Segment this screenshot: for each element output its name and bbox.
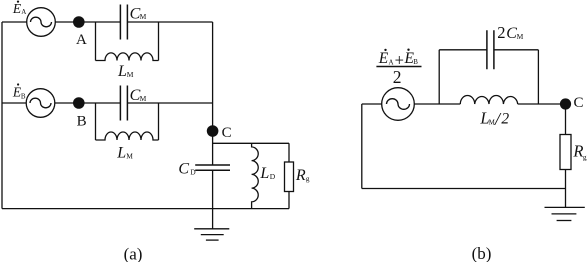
label L_M row1	[117, 63, 134, 80]
svg-text:R: R	[572, 142, 583, 161]
svg-text:g: g	[306, 174, 310, 183]
wire CM row1 to bus	[127, 21, 212, 23]
wire source EA left	[2, 21, 27, 23]
label E_B	[12, 83, 26, 100]
svg-text:A: A	[76, 32, 87, 48]
wire source b to inductor	[414, 103, 460, 105]
svg-text:C: C	[178, 161, 189, 178]
svg-text:A: A	[21, 8, 26, 16]
wire bus lower	[212, 170, 214, 208]
voltage source E_B	[26, 89, 55, 118]
svg-text:C: C	[574, 95, 584, 111]
resistor R_g (b)	[560, 135, 571, 189]
svg-text:(b): (b)	[472, 244, 492, 262]
wire left rail (a)	[1, 22, 3, 209]
wire riser left (b)	[438, 50, 440, 104]
wire source b left	[362, 103, 382, 105]
wire source EA to CM	[55, 21, 120, 23]
wire row2 right junction	[158, 103, 160, 140]
label C_M row2	[130, 87, 147, 104]
wire row1 right junction	[158, 22, 160, 61]
node B	[73, 97, 85, 109]
svg-text:L: L	[116, 145, 126, 162]
svg-text:2: 2	[497, 23, 505, 42]
wire node C to Rg (b)	[565, 104, 567, 135]
svg-text:M: M	[140, 94, 147, 103]
svg-text:A: A	[389, 58, 394, 66]
label L_D	[259, 165, 275, 182]
svg-text:g: g	[583, 152, 587, 161]
label node C (b)	[574, 95, 584, 111]
svg-text:M: M	[140, 12, 147, 21]
svg-text:R: R	[295, 167, 306, 184]
svg-text:B: B	[413, 58, 418, 66]
node C (b)	[560, 98, 571, 109]
label 2C_M	[497, 23, 523, 42]
capacitor C_M row2 plates	[120, 86, 127, 121]
wire row2 left junction	[95, 103, 97, 140]
capacitor 2C_M plates	[487, 30, 494, 69]
ground (a)	[194, 209, 229, 241]
label fraction (EA+EB)/2	[376, 49, 421, 87]
svg-text:D: D	[270, 172, 276, 181]
svg-text:E: E	[378, 50, 389, 67]
wire bottom (a)	[2, 208, 289, 210]
svg-text:(a): (a)	[124, 245, 143, 262]
label L_M row2	[116, 145, 133, 162]
svg-text:C: C	[222, 125, 232, 141]
wire bottom (b)	[362, 188, 566, 190]
label L_M/2	[479, 108, 509, 128]
svg-text:M: M	[127, 70, 134, 79]
resistor R_g (a)	[285, 143, 294, 208]
svg-text:B: B	[21, 93, 26, 101]
capacitor C_D plates	[195, 165, 230, 170]
wire branch C to RL	[213, 142, 289, 144]
capacitor C_M row1 plates	[120, 5, 127, 40]
label C_D	[178, 161, 196, 178]
inductor L_D	[252, 143, 259, 208]
inductor L_M row1	[96, 53, 159, 61]
svg-text:2: 2	[501, 110, 509, 127]
wire source EB to CM	[55, 102, 121, 104]
voltage source (EA+EB)/2	[382, 88, 415, 121]
label node A	[76, 32, 87, 48]
svg-text:L: L	[117, 63, 127, 80]
svg-text:C: C	[506, 25, 517, 42]
svg-text:M: M	[126, 152, 133, 161]
svg-text:L: L	[259, 165, 269, 182]
svg-text:B: B	[77, 113, 87, 129]
node A	[73, 16, 85, 28]
wire riser right (b)	[537, 50, 539, 104]
label C_M row1	[130, 5, 147, 22]
wire top branch left (b)	[439, 49, 487, 51]
label node B	[77, 113, 87, 129]
label R_g (a)	[295, 167, 310, 184]
label node C (a)	[222, 125, 232, 141]
wire bus upper	[212, 22, 214, 165]
inductor L_M row2	[96, 132, 159, 140]
node C (a)	[207, 125, 219, 137]
wire inductor to node C (b)	[518, 103, 566, 105]
label R_g (b)	[572, 142, 587, 162]
wire left rail (b)	[361, 104, 363, 189]
svg-text:M: M	[517, 32, 524, 41]
wire source EB left	[2, 102, 26, 104]
svg-text:D: D	[190, 168, 196, 177]
inductor L_M/2	[460, 95, 517, 104]
svg-text:2: 2	[393, 67, 402, 87]
voltage source E_A	[27, 8, 56, 37]
label E_A	[12, 1, 26, 17]
label (a)	[124, 245, 143, 262]
wire top branch right (b)	[494, 49, 539, 51]
label (b)	[472, 244, 492, 262]
wire CM row2 to bus	[127, 102, 212, 104]
ground (b)	[545, 189, 585, 221]
wire row1 left junction	[95, 22, 97, 61]
